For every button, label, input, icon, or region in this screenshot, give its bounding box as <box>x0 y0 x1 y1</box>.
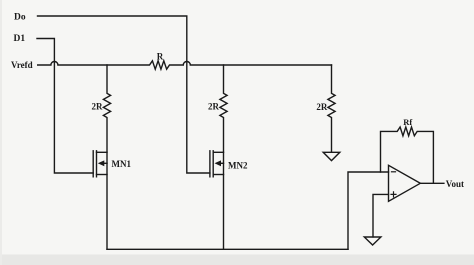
transistor MN2 bulk arrow <box>215 160 222 166</box>
op-amp minus sign <box>392 171 396 173</box>
transistor MN1 drain stub <box>97 151 108 153</box>
transistor MN1 bulk arrow <box>98 160 105 166</box>
wire op-amp output <box>420 182 444 184</box>
wire bottom rail up to op-amp inverting input <box>348 172 389 249</box>
op-amp U1 triangle <box>389 165 421 201</box>
transistor MN1 bulk stub <box>104 162 108 164</box>
svg-text:MN1: MN1 <box>112 159 132 169</box>
svg-text:MN2: MN2 <box>228 161 248 171</box>
wire feedback loop with resistor Rf <box>381 127 434 183</box>
ground below third 2R <box>323 152 340 160</box>
transistor MN1 channel bar <box>96 151 98 177</box>
resistor 2R first branch with wire down to bottom rail <box>103 65 110 249</box>
op-amp plus sign <box>391 192 396 197</box>
svg-text:2R: 2R <box>316 102 328 112</box>
left grey edge <box>0 0 2 265</box>
svg-text:2R: 2R <box>208 102 220 112</box>
transistor MN2 drain stub <box>213 151 223 153</box>
wire bottom rail <box>107 248 348 250</box>
svg-text:2R: 2R <box>92 102 104 112</box>
transistor MN2 source stub <box>213 174 223 176</box>
svg-text:R: R <box>157 52 164 62</box>
svg-text:Rf: Rf <box>403 117 412 127</box>
transistor MN2 gate bar <box>209 151 211 177</box>
resistor 2R third branch down to ground <box>328 65 335 152</box>
wire Vrefd rail with hop over D1 and Do, crossing hops <box>38 61 332 69</box>
transistor MN2 channel bar <box>212 151 214 177</box>
transistor MN1 gate bar <box>92 151 94 177</box>
transistor MN1 source stub <box>97 174 108 176</box>
svg-text:Vrefd: Vrefd <box>11 60 33 70</box>
svg-text:Vout: Vout <box>446 179 464 189</box>
transistor MN2 bulk stub <box>220 162 223 164</box>
wire Do line to MN2 gate <box>38 16 210 173</box>
bottom grey band <box>0 255 474 265</box>
wire op-amp noninverting input down <box>373 194 389 237</box>
resistor 2R second branch with wire down to bottom rail <box>220 65 227 249</box>
wire D1 line to MN1 gate <box>37 39 93 174</box>
svg-text:Do: Do <box>14 12 26 22</box>
ground below op-amp plus input <box>364 237 381 245</box>
svg-text:D1: D1 <box>14 34 26 44</box>
